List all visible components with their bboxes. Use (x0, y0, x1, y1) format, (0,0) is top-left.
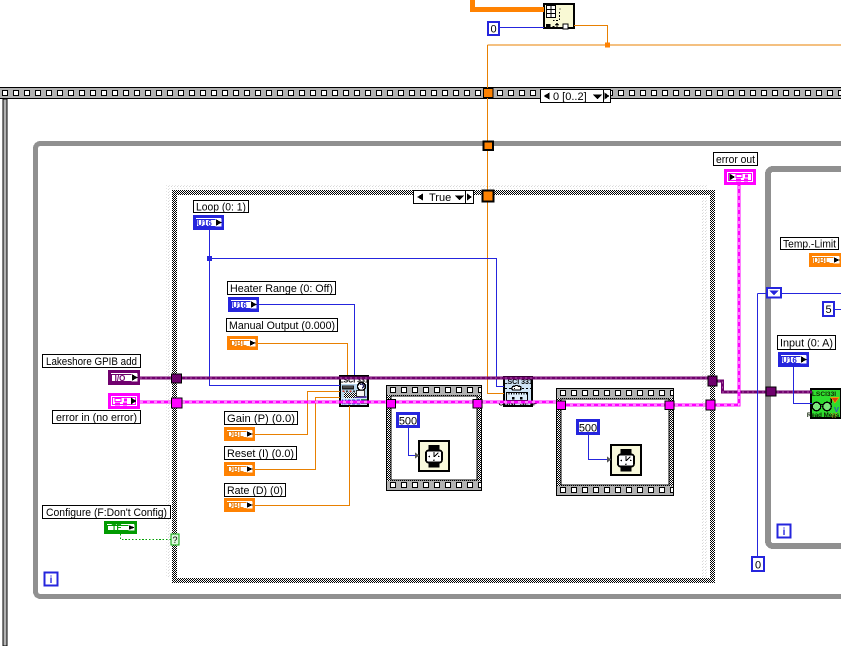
terminal: Lakeshore I/O (110, 372, 139, 384)
svg-text:0: 0 (755, 560, 761, 572)
label: Temp.-Limit (781, 238, 839, 251)
svg-text:Gain (P) (0.0): Gain (P) (0.0) (227, 413, 295, 425)
label: Lakeshore GPIB add (43, 355, 141, 369)
while loop 2 (right frame) (768, 169, 841, 546)
wire: green boolean dotted from TF to case selector (121, 534, 172, 540)
while loop (outer) (36, 144, 841, 597)
label: Rate (D) (0) (225, 484, 286, 498)
svg-text:Rate (D) (0): Rate (D) (0) (227, 485, 283, 497)
node: orange junction dot (605, 43, 610, 48)
svg-text:TF: TF (112, 523, 122, 532)
label: Input (0: A) (778, 336, 836, 350)
inner loop 2 frame (filmstrip) (556, 388, 674, 496)
svg-text:0: 0 (490, 24, 496, 36)
label: Configure (F:Don't Config) (43, 506, 171, 520)
tunnel: magenta on case right border (706, 400, 715, 410)
wire: orange from Manual Output into VI1 top (258, 344, 348, 376)
tunnel: magenta on case left border (172, 398, 183, 408)
svg-text:LSCI33I: LSCI33I (812, 391, 836, 398)
wire: thick orange array wire top-left (470, 0, 544, 10)
svg-text:LSCI 331: LSCI 331 (503, 379, 533, 386)
sequence structure left border (3, 99, 7, 646)
svg-text:error out: error out (716, 154, 755, 166)
svg-text:DBL: DBL (813, 256, 830, 265)
svg-text:DBL: DBL (227, 430, 244, 439)
tunnel: orange on while loop border (484, 142, 494, 151)
constant: 0 (shift register init) (752, 557, 764, 572)
tunnel: magenta loop1 right (473, 400, 482, 409)
terminal: Configure TF (106, 523, 136, 533)
svg-text:i: i (783, 527, 786, 538)
wire: magenta error wire from error-in across case (140, 400, 556, 403)
wire: orange from Reset into VI1 left (255, 398, 340, 470)
svg-text:0 [0..2]: 0 [0..2] (553, 91, 587, 103)
tunnel: magenta loop2 left (557, 401, 566, 410)
svg-text:U16: U16 (232, 301, 247, 310)
VI icon LSCI331 CONF SETP (U2) (499, 377, 538, 407)
label: Gain (P) (0.0) (225, 412, 298, 426)
sequence structure top border (filmstrip band) (0, 87, 841, 99)
terminal: Temp.-Limit DBL (clipped) (811, 255, 841, 266)
wire: blue shift register stub / init 0 (758, 294, 841, 557)
tunnel: orange on sequence band (484, 89, 494, 98)
case selector label "True" (414, 191, 474, 205)
wait(ms) clock icon 2 (611, 445, 641, 475)
wire: blue from 500 #1 to wait clock 1 (409, 428, 417, 456)
wire: orange from Rate into VI1 bottom (255, 406, 350, 506)
label: Heater Range (0: Off) (228, 282, 336, 296)
terminal: Rate DBL (226, 500, 254, 511)
wire: blue from 500 #2 to wait clock 2 (589, 435, 609, 460)
terminal: error out cluster (726, 171, 755, 184)
terminal: Heater Range U16 (230, 299, 258, 311)
tunnel: purple on case right border (708, 376, 717, 386)
terminal: Loop U16 (195, 217, 223, 229)
sequence selector label "0 [0..2]" (541, 90, 611, 104)
tunnel: purple on case left border (172, 374, 182, 383)
wire: blue from constant 0 to index array (500, 27, 544, 29)
wire: blue from Heater Range into VI1 top (259, 305, 355, 376)
wire: blue from Input U16 into Read Meas VI (794, 367, 813, 404)
tunnel: purple on right frame border (766, 387, 776, 396)
terminal: Input U16 (780, 354, 808, 366)
label: Loop (0: 1) (194, 201, 249, 214)
label: Reset (I) (0.0) (225, 447, 297, 461)
terminal: Reset DBL (226, 464, 254, 475)
terminal: error in cluster (110, 395, 139, 408)
wire: orange from index array output down to sequence (488, 26, 841, 394)
svg-text:500: 500 (399, 416, 417, 428)
op: index array function icon (544, 4, 574, 29)
case structure border (dithered) (172, 190, 715, 583)
svg-text:Reset (I) (0.0): Reset (I) (0.0) (227, 448, 294, 460)
svg-text:DBL: DBL (230, 339, 247, 348)
wire: magenta error wire loop2 to case tunnel and up to error out (556, 184, 739, 405)
svg-text:DBL: DBL (227, 501, 244, 510)
label: Manual Output (0.000) (227, 319, 338, 333)
svg-text:Input (0: A): Input (0: A) (780, 338, 833, 350)
constant: 0 (top, index) (488, 22, 499, 36)
svg-text:5: 5 (825, 304, 831, 316)
svg-text:?: ? (172, 535, 177, 545)
wait(ms) clock icon 1 (419, 441, 449, 471)
svg-text:error in (no error): error in (no error) (56, 412, 137, 424)
svg-text:Temp.-Limit: Temp.-Limit (783, 239, 836, 251)
svg-text:i: i (50, 575, 53, 586)
while loop iteration terminal i (45, 573, 58, 587)
case structure selection marquee (light dots) (166, 184, 708, 578)
svg-text:Manual Output (0.000): Manual Output (0.000) (229, 320, 335, 332)
wire: purple VISA wire step to right frame and Read Meas VI (713, 381, 812, 392)
wire: blue from constant 5 to right edge (835, 309, 841, 311)
label: error out (714, 153, 758, 167)
svg-text:True: True (429, 192, 451, 204)
VI icon LSCI331 Read Meas (U3, clipped at right) (807, 389, 841, 420)
wire: purple VISA wire horizontal run (140, 377, 713, 380)
tunnel: orange on case top border (483, 191, 494, 202)
svg-text:I/O: I/O (115, 374, 126, 383)
svg-text:U16: U16 (197, 219, 212, 228)
svg-text:U16: U16 (782, 356, 797, 365)
terminal: Gain DBL (226, 429, 254, 440)
inner loop 1 frame (filmstrip) (386, 385, 482, 491)
wire: blue from Loop U16 down and to VI1 / VI2 (210, 230, 505, 387)
constant: 5 (823, 302, 834, 316)
svg-text:DBL: DBL (227, 465, 244, 474)
constant: 500 loop1 (398, 414, 419, 428)
VI icon LSCI331 MODE (U1) (339, 376, 369, 407)
shift register left terminal (767, 288, 781, 298)
svg-text:Configure (F:Don't Config): Configure (F:Don't Config) (46, 507, 167, 519)
tunnel: magenta loop1 left (387, 400, 396, 409)
svg-text:Lakeshore GPIB add: Lakeshore GPIB add (46, 356, 137, 368)
svg-text:Heater Range (0: Off): Heater Range (0: Off) (230, 283, 333, 295)
label: error in (no error) (53, 411, 141, 425)
while loop 2 iteration terminal i (778, 525, 791, 539)
tunnel: magenta loop2 right (665, 401, 674, 410)
svg-text:Read Meas: Read Meas (807, 412, 840, 419)
svg-text:500: 500 (579, 423, 597, 435)
constant: 500 loop2 (578, 421, 599, 435)
terminal: Manual Output DBL (229, 338, 257, 349)
case selector ? terminal (171, 534, 179, 545)
wire: orange from Gain into VI1 left (255, 392, 340, 435)
node: blue junction dot (207, 256, 212, 261)
svg-text:Loop (0: 1): Loop (0: 1) (196, 202, 246, 214)
